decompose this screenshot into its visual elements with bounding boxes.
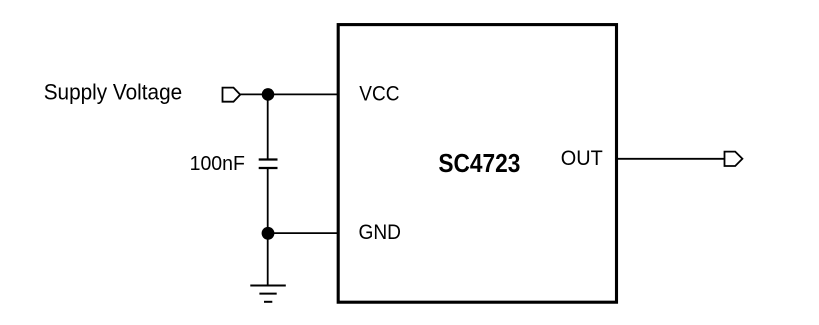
svg-text:OUT: OUT xyxy=(561,146,603,170)
svg-text:VCC: VCC xyxy=(359,82,399,106)
svg-text:Supply Voltage: Supply Voltage xyxy=(44,79,183,104)
svg-text:SC4723: SC4723 xyxy=(438,148,520,178)
svg-text:100nF: 100nF xyxy=(190,152,245,175)
svg-text:GND: GND xyxy=(359,220,402,244)
